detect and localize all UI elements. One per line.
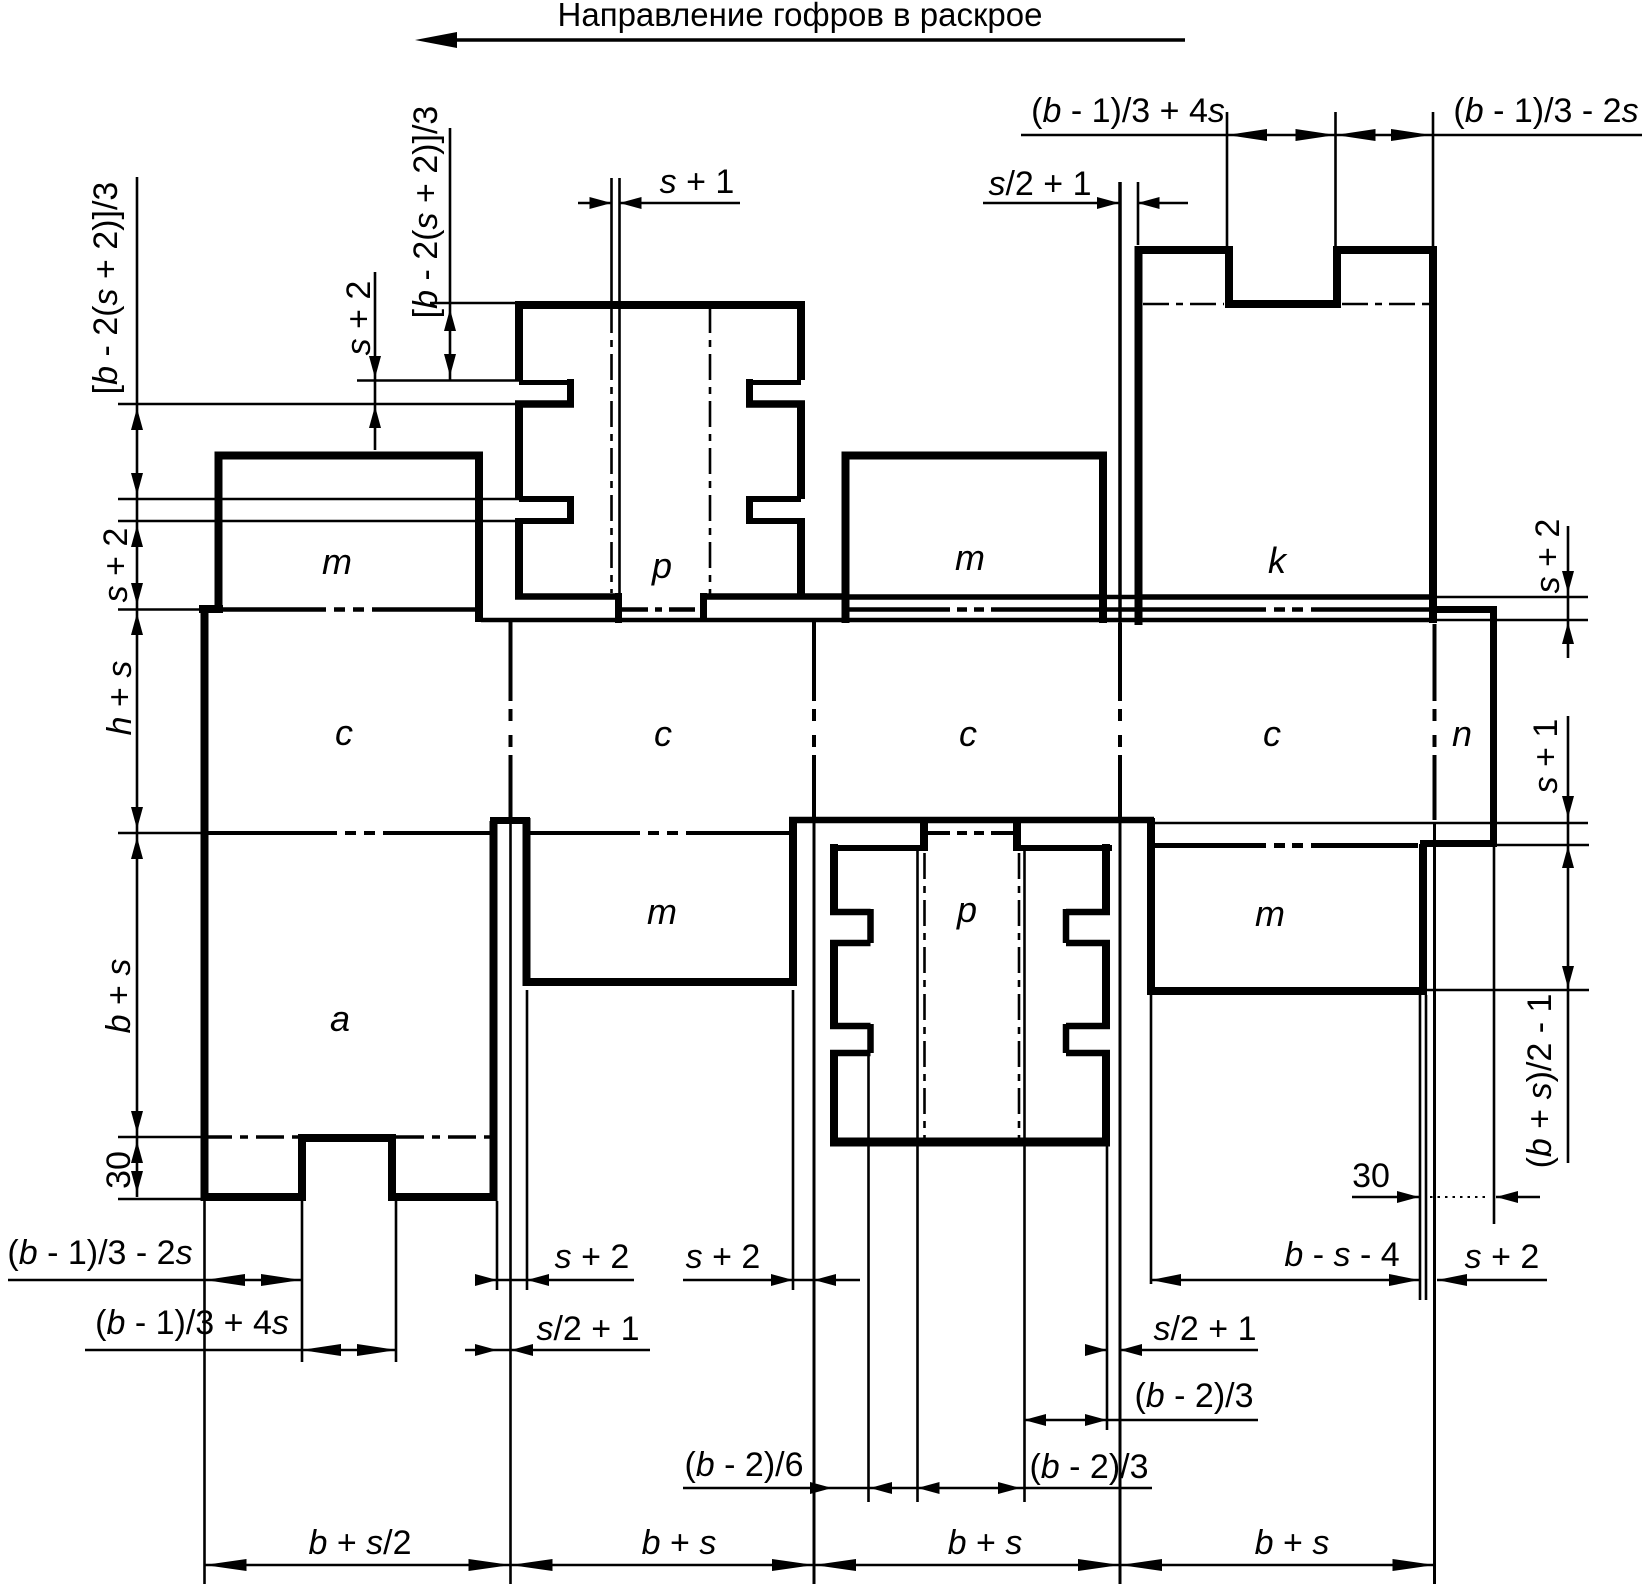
left dimension line x=137 [136,177,139,1197]
fold line inside p-top left (dash-dot) [610,307,613,593]
flap p right notch 2 [746,496,801,502]
fold line under flap m1 (dash-dash) [204,607,475,612]
dim s+2 at m1b/p slit [683,1279,860,1282]
flap p right edge segments [797,301,805,598]
panel c1 / panel a left edge + a bottom with tab notch [205,608,494,1197]
bottom fold line y=833 (dash-dash) [204,831,1013,835]
extensions below p-bottom [869,1056,1108,1502]
dimension line x=450 [449,128,452,380]
svg-text:s/2 + 1: s/2 + 1 [536,1310,639,1348]
dim s+2 right bottom [1437,1279,1547,1282]
corner step under m1 left edge [199,605,223,613]
svg-text:(b - 1)/3 + 4s: (b - 1)/3 + 4s [1031,92,1225,130]
svg-text:[b - 2(s + 2)]/3: [b - 2(s + 2)]/3 [407,106,445,319]
dim s+1 right and (b+s)/2-1 [1567,716,1570,1163]
svg-text:s/2 + 1: s/2 + 1 [1153,1310,1256,1348]
fold line of m2-bottom (dash-dash) [1155,843,1418,848]
flap p top edge [515,301,805,309]
svg-text:(b - 2)/3: (b - 2)/3 [1029,1448,1148,1486]
slit bar between a and m1-bottom [490,817,530,824]
svg-text:m: m [955,537,985,578]
flap n bottom edge [1420,840,1497,847]
svg-text:b + s: b + s [1255,1524,1330,1562]
left dim arrows [131,408,143,430]
flap m1-bottom outline [527,818,794,982]
svg-text:[b - 2(s + 2)]/3: [b - 2(s + 2)]/3 [87,182,125,395]
flap n top edge [1437,606,1494,613]
panel boundary c3/c4 fold line [1118,623,1122,818]
svg-text:Направление гофров в раскрое: Направление гофров в раскрое [558,0,1043,33]
dim s+2 at a/m1b slit [475,1279,634,1282]
dim s+2 right [1567,526,1570,658]
panel boundary c2/c3 fold line [812,622,816,818]
extensions below a tab [302,1201,396,1362]
svg-text:b + s/2: b + s/2 [308,1524,411,1562]
fold lines inside k (dash-dot) [1143,303,1224,306]
flap p-bottom bottom edge [830,1138,1110,1147]
fold line p-top neck (dash-dot) [622,607,700,612]
svg-text:b + s: b + s [642,1524,717,1562]
dim [b-2(s+2)]/3 (p height) [444,309,456,331]
svg-text:b - s - 4: b - s - 4 [1284,1236,1399,1274]
flap p left notch 1 [519,380,571,385]
dim (b-2)/3 (p-bottom right part) [1024,1419,1258,1422]
extension of m2-bottom lower edge [1427,989,1589,992]
extensions below m2-bottom [1151,847,1494,1300]
svg-text:(b - 1)/3 - 2s: (b - 1)/3 - 2s [7,1234,192,1272]
vertical extensions below bar [814,823,1435,1584]
flap p-bottom right-part top edge [1021,845,1112,851]
flap p-bottom left-part top edge [830,845,920,851]
svg-text:s + 2: s + 2 [97,528,135,603]
fold lines inside p-bottom (dash-dot) [923,853,926,1138]
flap p left edge segments [515,301,523,598]
slot edge y=620 extension right [1434,619,1588,622]
extension lines at top-left [118,404,519,521]
svg-text:m: m [647,891,677,932]
svg-text:m: m [1255,893,1285,934]
dim (b-2)/6 and (b-2)/3 (p-bottom) [683,1487,1152,1490]
panel boundary c4/n fold line [1433,624,1437,820]
extensions below a/m1b slit [497,990,793,1290]
slot edge y=597 under m3 and k [849,594,1103,600]
panel c4 bottom cut line [1155,822,1588,825]
fold line under m3 (dash-dash) [849,607,1431,612]
dim s/2+1 right bottom [1087,1349,1258,1352]
svg-text:(b - 1)/3 - 2s: (b - 1)/3 - 2s [1453,92,1638,130]
dim (b-1)/3-2s bottom [8,1279,301,1282]
svg-text:(b - 2)/6: (b - 2)/6 [684,1446,803,1484]
fold line inside p-top right (dash-dot) [709,307,712,595]
slot edge y=597 extension right [1434,596,1588,599]
dim 30 right [1352,1196,1419,1199]
extension of n bottom edge [1497,844,1589,847]
svg-text:(b + s)/2 - 1: (b + s)/2 - 1 [1521,994,1559,1169]
flap p-bottom right edge segments [1102,844,1110,1140]
slit cut line between m3 and k [1118,182,1122,623]
dimension line x=375 [374,272,377,450]
dim (b-1)/3+4s bottom [85,1349,397,1352]
flap p right notch 1 [746,380,801,385]
svg-text:30: 30 [100,1151,138,1189]
flap p-bottom left notch 1 [830,909,871,943]
dim s+1 (top slit) [578,202,740,205]
svg-text:(b - 2)/3: (b - 2)/3 [1134,1377,1253,1415]
svg-text:b + s: b + s [948,1524,1023,1562]
svg-text:b + s: b + s [100,959,138,1034]
slit cut lines left of p-top (s+1) [610,178,613,303]
flap p-bottom neck verticals [920,818,928,851]
svg-text:c: c [335,712,353,753]
svg-text:n: n [1452,713,1472,754]
flap p bottom-right edge [700,593,845,600]
svg-text:s + 2: s + 2 [1529,519,1567,594]
svg-text:c: c [1263,713,1281,754]
svg-text:h + s: h + s [101,661,139,736]
flap n right edge [1490,606,1497,847]
svg-text:30: 30 [1352,1157,1390,1195]
svg-text:(b - 1)/3 + 4s: (b - 1)/3 + 4s [95,1304,289,1342]
svg-text:s + 2: s + 2 [1465,1238,1540,1276]
extension lines of k top notch [1227,112,1433,250]
svg-text:p: p [651,545,672,586]
flap p-bottom right notch 2 [1066,1024,1110,1053]
svg-text:c: c [654,713,672,754]
cut lines inside p-bottom [916,851,919,1140]
flap m3 (top) outline [846,456,1104,624]
dim line (b-1)/3+4s and (b-1)/3-2s (top) [1021,134,1642,137]
svg-text:s + 2: s + 2 [555,1238,630,1276]
extension line p-top top edge [430,302,515,305]
svg-text:s + 2: s + 2 [686,1238,761,1276]
extension line y=380 [357,379,519,382]
grain direction arrow [427,38,1185,42]
flap p-bottom right notch 1 [1066,909,1110,943]
dim b+s/2 and b+s row [205,1564,1435,1567]
svg-text:m: m [322,541,352,582]
cut bar above bottom flaps [789,817,1154,824]
dim s/2+1 left bottom [465,1349,650,1352]
slot edge y=620 (top of body panels) [481,618,1434,623]
svg-text:s/2 + 1: s/2 + 1 [988,165,1091,203]
dim s+2 (p notch) [369,356,381,378]
svg-text:k: k [1268,540,1288,581]
flap k outline with top notch [1139,250,1434,625]
flap p-bottom left notch 2 [830,1024,871,1053]
flap m2-bottom outline [1151,818,1423,991]
extension below c1/c2 boundary [509,820,512,1584]
flap p bottom-left edge [515,593,619,600]
svg-text:p: p [956,889,977,930]
flap p left notch 2 [519,496,574,502]
svg-text:c: c [959,713,977,754]
svg-text:s + 2: s + 2 [340,281,378,356]
flap p-bottom left edge segments [830,844,838,1140]
fold line of a-bottom tab (dash-dot) [204,1135,298,1139]
panel boundary c1/c2 fold line [509,622,513,818]
svg-text:s + 1: s + 1 [660,163,735,201]
extension below panel a [203,1201,206,1584]
flap p neck cut verticals [615,593,622,623]
left extension lines [118,610,204,1200]
svg-text:a: a [330,998,350,1039]
flap m1 (top-left) outline [219,456,480,623]
svg-text:s + 1: s + 1 [1527,719,1565,794]
dim b-s-4 [1151,1279,1419,1282]
dim s/2+1 (top slit) [983,202,1188,205]
